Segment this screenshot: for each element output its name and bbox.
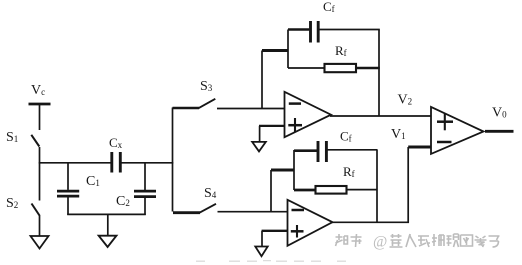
wire <box>67 197 69 215</box>
wire <box>172 108 174 212</box>
svg-text:C1: C1 <box>86 174 100 189</box>
switch S3 <box>173 99 216 108</box>
wire <box>408 146 431 149</box>
ground <box>252 142 266 152</box>
wire <box>347 189 378 191</box>
svg-text:@: @ <box>373 234 387 251</box>
ground <box>255 247 267 257</box>
ground <box>31 236 49 249</box>
wire <box>378 30 380 117</box>
wire <box>67 163 69 190</box>
svg-text:Cx: Cx <box>109 135 123 150</box>
wire <box>39 147 41 201</box>
svg-text:C2: C2 <box>116 194 130 209</box>
wire <box>294 149 317 152</box>
wire <box>287 30 289 69</box>
watermark 嵌入式物联网学习 glyphs <box>390 234 500 247</box>
svg-text:V2: V2 <box>398 93 413 108</box>
wire <box>328 149 378 151</box>
wire <box>144 163 146 190</box>
svg-text:Vc: Vc <box>31 83 45 98</box>
svg-text:S4: S4 <box>204 186 217 201</box>
wire <box>217 108 285 110</box>
svg-text:Rf: Rf <box>335 43 347 58</box>
capacitor C2 <box>134 191 156 197</box>
wire <box>262 49 289 52</box>
wire <box>218 211 288 213</box>
resistor Rf <box>316 186 347 194</box>
wire <box>485 130 514 133</box>
wire <box>271 169 295 172</box>
wire <box>270 170 272 212</box>
op-amp U2 <box>288 200 333 246</box>
resistor Rf <box>325 64 357 72</box>
svg-text:S3: S3 <box>200 79 213 94</box>
svg-text:S1: S1 <box>6 130 18 145</box>
ground <box>99 236 117 247</box>
wire <box>330 115 431 117</box>
wire <box>288 28 309 31</box>
watermark 知乎 @嵌入式物联网学习 <box>336 234 362 247</box>
svg-text:S2: S2 <box>6 196 18 211</box>
wire <box>39 104 41 130</box>
wire <box>356 67 380 70</box>
wire <box>122 162 174 164</box>
switch S2 <box>32 204 40 216</box>
wire <box>259 126 285 142</box>
op-amp U1 <box>285 92 332 137</box>
wire <box>39 162 111 164</box>
caption sliver (cut off at bottom edge) <box>196 260 346 263</box>
op-amp U3 <box>431 107 484 154</box>
svg-text:V0: V0 <box>492 106 507 121</box>
capacitor C1 <box>57 191 79 196</box>
svg-text:Rf: Rf <box>343 164 355 179</box>
switch S4 <box>173 204 216 213</box>
wire <box>293 150 295 190</box>
wire <box>320 29 380 31</box>
switch S1 <box>31 135 39 147</box>
svg-text:Cf: Cf <box>340 129 352 144</box>
wire <box>288 67 325 69</box>
wire <box>39 215 41 236</box>
wire <box>107 214 109 236</box>
capacitor Cx <box>112 152 121 173</box>
wire <box>261 51 263 109</box>
capacitor Cf <box>318 141 326 162</box>
node Vc terminal bar <box>29 103 51 106</box>
wire <box>407 147 409 223</box>
wire <box>294 189 315 192</box>
wire <box>376 150 378 223</box>
wire <box>262 231 288 247</box>
wire <box>332 221 410 223</box>
svg-text:V1: V1 <box>391 127 406 142</box>
capacitor Cf <box>311 21 319 43</box>
svg-text:Cf: Cf <box>323 0 335 14</box>
wire <box>144 198 146 215</box>
wire <box>67 213 146 215</box>
